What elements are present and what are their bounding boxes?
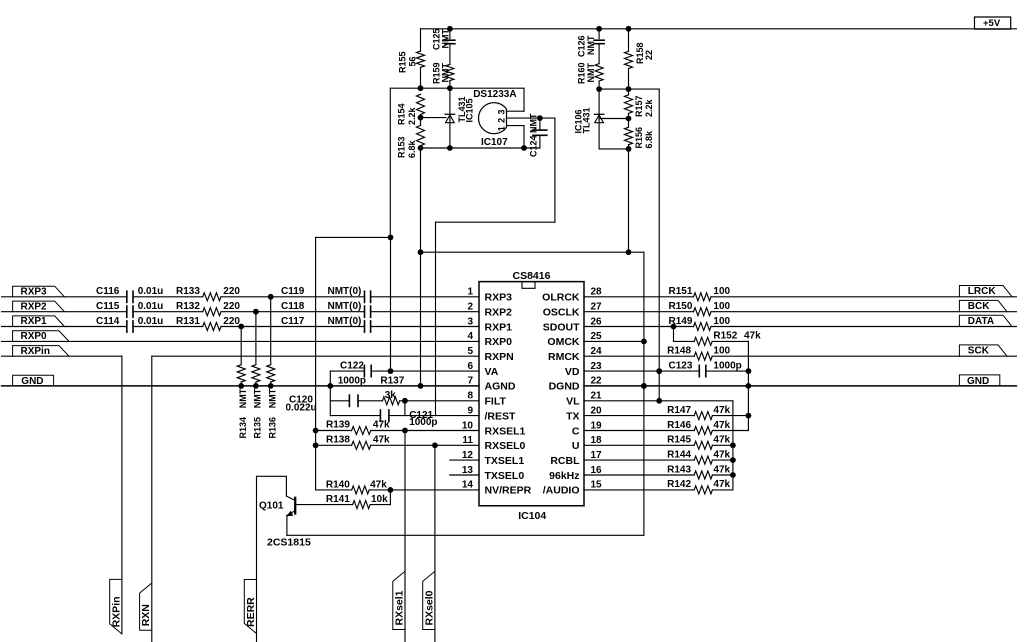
svg-text:R149: R149 <box>669 316 693 327</box>
svg-text:0.01u: 0.01u <box>138 316 164 327</box>
svg-text:RXsel1: RXsel1 <box>393 590 405 625</box>
svg-text:RXSEL0: RXSEL0 <box>485 440 526 452</box>
svg-text:R152: R152 <box>713 331 737 342</box>
svg-text:27: 27 <box>591 302 603 313</box>
svg-text:IC107: IC107 <box>481 137 508 148</box>
svg-text:NMT: NMT <box>238 388 248 408</box>
svg-text:RXPin: RXPin <box>110 596 122 627</box>
svg-text:220: 220 <box>223 316 240 327</box>
svg-text:25: 25 <box>591 331 603 342</box>
svg-text:OSCLK: OSCLK <box>543 307 580 319</box>
svg-text:R134: R134 <box>238 417 248 439</box>
svg-text:R155: R155 <box>398 51 408 73</box>
svg-text:R131: R131 <box>176 316 200 327</box>
svg-text:28: 28 <box>591 287 603 298</box>
svg-text:C115: C115 <box>96 301 120 312</box>
svg-text:NMT(0): NMT(0) <box>328 316 362 327</box>
svg-text:C126: C126 <box>577 35 587 57</box>
svg-text:R156: R156 <box>634 127 644 149</box>
svg-text:TX: TX <box>566 410 579 422</box>
svg-text:R151: R151 <box>669 286 693 297</box>
svg-text:RXSEL1: RXSEL1 <box>485 425 526 437</box>
svg-text:123: 123 <box>497 106 507 131</box>
svg-text:NMT: NMT <box>441 63 451 83</box>
svg-text:R133: R133 <box>176 286 200 297</box>
svg-text:RXP0: RXP0 <box>21 331 48 342</box>
svg-text:GND: GND <box>21 376 43 387</box>
svg-text:18: 18 <box>591 435 603 446</box>
svg-text:0.022u: 0.022u <box>286 402 317 413</box>
svg-text:1000p: 1000p <box>713 360 741 371</box>
svg-text:C116: C116 <box>96 286 120 297</box>
svg-text:RXPN: RXPN <box>485 351 514 363</box>
svg-text:2: 2 <box>467 302 473 313</box>
svg-text:47k: 47k <box>713 450 730 461</box>
svg-text:SDOUT: SDOUT <box>543 321 580 333</box>
svg-text:VL: VL <box>566 396 580 408</box>
svg-text:U: U <box>572 440 580 452</box>
svg-text:NMT: NMT <box>441 29 451 49</box>
svg-text:RXPin: RXPin <box>21 346 50 357</box>
svg-text:C124 NMT: C124 NMT <box>529 113 539 157</box>
svg-text:NMT: NMT <box>586 35 596 55</box>
svg-text:1: 1 <box>467 287 473 298</box>
svg-text:AGND: AGND <box>485 381 516 393</box>
svg-text:R139: R139 <box>326 420 350 431</box>
svg-text:100: 100 <box>713 346 730 357</box>
svg-text:R146: R146 <box>667 420 691 431</box>
svg-text:47k: 47k <box>713 464 730 475</box>
svg-text:LRCK: LRCK <box>968 286 997 297</box>
svg-text:GND: GND <box>967 376 989 387</box>
svg-text:1000p: 1000p <box>409 417 437 428</box>
svg-text:47k: 47k <box>713 479 730 490</box>
svg-text:R135: R135 <box>253 417 263 439</box>
svg-text:R132: R132 <box>176 301 200 312</box>
svg-text:R137: R137 <box>380 375 404 386</box>
svg-text:C122: C122 <box>340 360 364 371</box>
svg-text:C: C <box>572 425 580 437</box>
svg-text:R144: R144 <box>667 450 691 461</box>
svg-text:C119: C119 <box>281 286 305 297</box>
svg-text:C118: C118 <box>281 301 305 312</box>
svg-text:23: 23 <box>591 361 603 372</box>
svg-text:2.2k: 2.2k <box>407 106 417 125</box>
svg-text:BCK: BCK <box>968 301 990 312</box>
svg-text:17: 17 <box>591 450 603 461</box>
svg-text:R147: R147 <box>667 405 691 416</box>
svg-text:15: 15 <box>591 480 603 491</box>
svg-text:C114: C114 <box>96 316 120 327</box>
svg-text:NMT(0): NMT(0) <box>328 286 362 297</box>
svg-text:13: 13 <box>462 465 474 476</box>
svg-text:24: 24 <box>591 346 603 357</box>
svg-text:R140: R140 <box>326 479 350 490</box>
svg-text:/REST: /REST <box>485 410 517 422</box>
svg-text:OMCK: OMCK <box>547 336 579 348</box>
svg-text:RCBL: RCBL <box>550 455 580 467</box>
svg-text:8: 8 <box>467 391 473 402</box>
svg-text:RMCK: RMCK <box>548 351 580 363</box>
svg-text:IC105: IC105 <box>465 98 475 122</box>
svg-text:NMT: NMT <box>267 388 277 408</box>
svg-text:DGND: DGND <box>549 381 580 393</box>
svg-text:3: 3 <box>467 316 473 327</box>
svg-text:9: 9 <box>467 405 473 416</box>
svg-text:47k: 47k <box>373 435 390 446</box>
svg-text:RXsel0: RXsel0 <box>423 590 435 625</box>
svg-text:OLRCK: OLRCK <box>542 292 580 304</box>
svg-text:100: 100 <box>713 286 730 297</box>
svg-text:11: 11 <box>462 435 473 446</box>
svg-text:47k: 47k <box>713 405 730 416</box>
svg-text:RXP1: RXP1 <box>485 321 513 333</box>
svg-text:R141: R141 <box>326 494 350 505</box>
svg-text:RXP1: RXP1 <box>21 316 48 327</box>
svg-text:DATA: DATA <box>968 316 994 327</box>
svg-text:220: 220 <box>223 286 240 297</box>
svg-text:47k: 47k <box>370 479 387 490</box>
svg-text:RXP0: RXP0 <box>485 336 513 348</box>
svg-text:100: 100 <box>713 316 730 327</box>
svg-text:R148: R148 <box>667 346 691 357</box>
svg-text:14: 14 <box>462 480 474 491</box>
svg-text:0.01u: 0.01u <box>138 301 164 312</box>
svg-text:0.01u: 0.01u <box>138 286 164 297</box>
svg-text:4: 4 <box>467 331 473 342</box>
svg-text:7: 7 <box>467 376 473 387</box>
svg-text:19: 19 <box>591 420 603 431</box>
svg-text:TXSEL0: TXSEL0 <box>485 470 525 482</box>
svg-text:+5V: +5V <box>983 18 1001 29</box>
svg-text:RXP2: RXP2 <box>485 307 513 319</box>
svg-text:1000p: 1000p <box>338 375 366 386</box>
svg-text:C117: C117 <box>281 316 305 327</box>
svg-text:21: 21 <box>591 391 603 402</box>
svg-text:CS8416: CS8416 <box>513 270 551 282</box>
svg-text:TL431: TL431 <box>582 107 592 133</box>
svg-text:100: 100 <box>713 301 730 312</box>
svg-text:/AUDIO: /AUDIO <box>543 485 580 497</box>
svg-text:RXN: RXN <box>140 604 152 626</box>
svg-text:20: 20 <box>591 405 603 416</box>
svg-text:R154: R154 <box>397 103 407 125</box>
svg-text:R136: R136 <box>267 417 277 439</box>
svg-text:220: 220 <box>223 301 240 312</box>
svg-text:R145: R145 <box>667 435 691 446</box>
svg-text:12: 12 <box>462 450 474 461</box>
svg-text:TXSEL1: TXSEL1 <box>485 455 525 467</box>
svg-text:C123: C123 <box>669 360 693 371</box>
svg-text:47k: 47k <box>713 420 730 431</box>
svg-text:16: 16 <box>591 465 603 476</box>
svg-text:VA: VA <box>485 366 499 378</box>
svg-text:26: 26 <box>591 316 603 327</box>
svg-text:RERR: RERR <box>245 597 257 627</box>
svg-text:R153: R153 <box>397 136 407 158</box>
svg-text:IC104: IC104 <box>518 510 546 522</box>
svg-text:3k: 3k <box>385 390 397 401</box>
svg-text:R160: R160 <box>577 62 587 84</box>
svg-text:SCK: SCK <box>968 346 990 357</box>
svg-text:NMT(0): NMT(0) <box>328 301 362 312</box>
svg-text:2.2k: 2.2k <box>644 98 654 117</box>
svg-text:10k: 10k <box>371 494 388 505</box>
svg-text:RXP2: RXP2 <box>21 301 48 312</box>
svg-text:6: 6 <box>467 361 473 372</box>
svg-text:5: 5 <box>467 346 473 357</box>
svg-text:NV/REPR: NV/REPR <box>485 485 532 497</box>
svg-text:R142: R142 <box>667 479 691 490</box>
svg-text:96kHz: 96kHz <box>549 470 579 482</box>
svg-text:NMT: NMT <box>586 63 596 83</box>
svg-text:VD: VD <box>565 366 580 378</box>
svg-text:R157: R157 <box>634 95 644 117</box>
svg-text:DS1233A: DS1233A <box>473 89 516 100</box>
svg-text:FILT: FILT <box>485 396 507 408</box>
svg-text:47k: 47k <box>713 435 730 446</box>
svg-text:R143: R143 <box>667 464 691 475</box>
svg-text:6.8k: 6.8k <box>644 130 654 149</box>
svg-text:Q101: Q101 <box>259 501 284 512</box>
svg-text:R138: R138 <box>326 435 350 446</box>
svg-text:22: 22 <box>644 50 654 60</box>
svg-text:RXP3: RXP3 <box>21 287 48 298</box>
svg-text:RXP3: RXP3 <box>485 292 513 304</box>
svg-text:10: 10 <box>462 420 474 431</box>
svg-text:6.8k: 6.8k <box>407 139 417 158</box>
svg-text:47k: 47k <box>744 331 761 342</box>
svg-text:56: 56 <box>408 56 418 66</box>
svg-text:22: 22 <box>591 376 603 387</box>
svg-text:2CS1815: 2CS1815 <box>267 537 311 549</box>
svg-text:47k: 47k <box>373 420 390 431</box>
svg-text:NMT: NMT <box>253 388 263 408</box>
svg-text:R150: R150 <box>669 301 693 312</box>
